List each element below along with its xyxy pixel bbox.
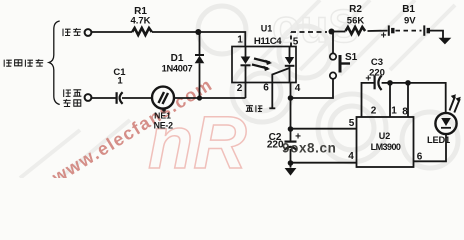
svg-text:2: 2 (237, 83, 243, 94)
svg-text:LED1: LED1 (427, 135, 450, 145)
svg-text:NE-2: NE-2 (154, 120, 174, 130)
svg-text:B1: B1 (402, 4, 415, 15)
svg-text:9ox8.cn: 9ox8.cn (282, 141, 336, 156)
svg-text:R2: R2 (349, 4, 362, 15)
svg-text:5: 5 (349, 118, 355, 129)
svg-text:6: 6 (263, 83, 269, 94)
svg-text:NE1: NE1 (154, 111, 171, 121)
svg-text:4: 4 (348, 151, 354, 162)
svg-text:1: 1 (391, 106, 397, 117)
svg-text:6: 6 (417, 152, 423, 163)
svg-text:5: 5 (293, 37, 299, 48)
svg-text:H11C4: H11C4 (254, 36, 282, 47)
svg-text:U1: U1 (261, 23, 273, 33)
svg-text:+: + (365, 74, 371, 85)
svg-text:56K: 56K (347, 16, 365, 27)
svg-text:4.7K: 4.7K (130, 15, 150, 26)
svg-text:2: 2 (371, 106, 377, 117)
svg-text:4: 4 (295, 83, 301, 94)
svg-text:8: 8 (402, 107, 408, 118)
svg-text:+: + (381, 31, 387, 42)
svg-text:U2: U2 (379, 131, 391, 141)
svg-text:220: 220 (369, 68, 385, 79)
svg-text:1: 1 (117, 75, 123, 86)
svg-text:1: 1 (237, 35, 243, 46)
svg-text:9V: 9V (404, 16, 416, 27)
svg-text:1N4007: 1N4007 (162, 63, 193, 73)
svg-text:S1: S1 (345, 52, 358, 63)
svg-text:LM3900: LM3900 (371, 142, 401, 152)
